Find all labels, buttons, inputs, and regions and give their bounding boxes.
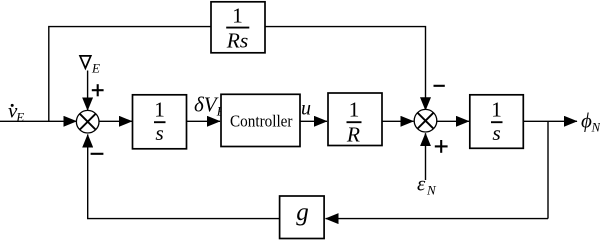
svg-text:E: E — [15, 110, 24, 125]
label phi_N — [581, 108, 600, 134]
summing junction 1 (circle with X) — [76, 110, 99, 133]
svg-text:g: g — [296, 199, 309, 226]
svg-text:u: u — [301, 97, 311, 119]
svg-text:ε: ε — [417, 172, 426, 196]
svg-text:1: 1 — [154, 98, 165, 122]
block g — [280, 196, 325, 239]
block 1/Rs — [211, 2, 265, 53]
label v_E (v-dot E) — [8, 98, 24, 124]
label nabla_E — [80, 56, 100, 76]
wire: summing junction 2 to second 1/s — [437, 120, 469, 122]
wire: branch down from output line — [547, 121, 549, 218]
label deltaV_E — [194, 92, 225, 118]
wire: bottom feedback line into g block — [326, 218, 549, 220]
minus sign below summing junction 1 — [91, 153, 104, 155]
svg-text:s: s — [492, 121, 500, 145]
block 1/R — [328, 93, 382, 147]
svg-text:N: N — [426, 183, 437, 198]
summing junction 2 (circle with X) — [414, 109, 437, 132]
svg-text:ϕ: ϕ — [581, 108, 592, 132]
svg-text:1: 1 — [232, 3, 243, 27]
svg-text:1: 1 — [491, 98, 502, 122]
block 1/s (second integrator) — [470, 95, 524, 149]
wire: epsilon_N up into summing junction 2 — [425, 133, 427, 180]
wire: arrow from nabla down into summing junction 1 — [87, 71, 89, 111]
svg-text:1: 1 — [349, 98, 360, 122]
svg-text:δV: δV — [194, 92, 219, 116]
plus sign near top of summing junction 1 — [92, 84, 104, 96]
svg-text:Controller: Controller — [230, 111, 293, 130]
wire: summing junction 1 to block 1/s — [99, 120, 132, 122]
svg-text:s: s — [155, 121, 163, 145]
block Controller — [221, 94, 300, 146]
plus sign below summing junction 2 — [435, 140, 448, 153]
block 1/s (first integrator) — [133, 95, 187, 149]
wire: g block to left then up into summing junction 1 — [88, 135, 280, 219]
svg-text:N: N — [591, 119, 600, 134]
wire: branch up from input line to top feedback line — [49, 27, 211, 122]
wire: top feedback line from 1/Rs to summing junction 2 — [265, 27, 426, 111]
label epsilon_N — [417, 172, 437, 198]
minus sign at top of summing junction 2 — [434, 85, 445, 87]
wire: input line from left edge to summing junction 1 — [0, 120, 77, 122]
wire: 1/s to Controller — [187, 120, 221, 122]
svg-text:R: R — [346, 123, 360, 147]
wire: 1/R to summing junction 2 — [382, 120, 414, 122]
svg-text:Rs: Rs — [226, 28, 249, 52]
wire: output line to phi_N — [523, 120, 577, 122]
svg-text:E: E — [91, 61, 100, 76]
wire: Controller to 1/R — [300, 120, 327, 122]
